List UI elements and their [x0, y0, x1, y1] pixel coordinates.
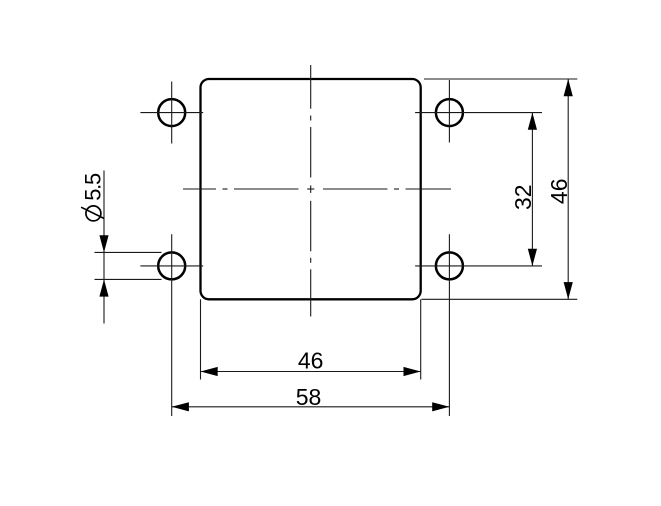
svg-text:46: 46 [298, 347, 324, 373]
svg-text:46: 46 [546, 179, 572, 205]
svg-text:5.5: 5.5 [81, 173, 106, 201]
svg-text:32: 32 [510, 184, 536, 210]
svg-text:58: 58 [296, 384, 322, 410]
